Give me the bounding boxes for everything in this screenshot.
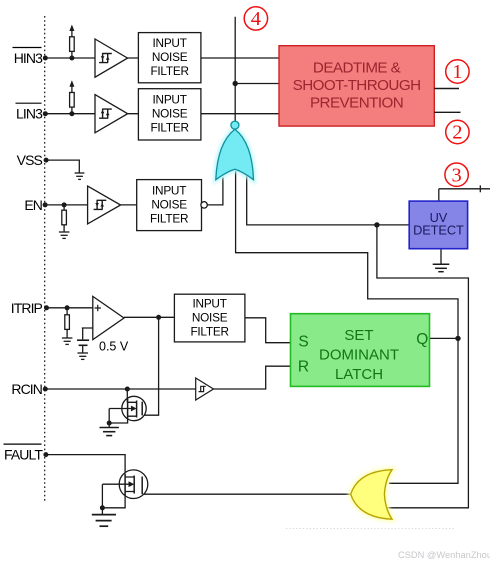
wire comparator minus input (82, 328, 100, 339)
OR gate (yellow) glow (351, 470, 392, 520)
wire HIN3 row (45, 57, 279, 59)
circled number 2 (446, 120, 469, 143)
svg-text:FILTER: FILTER (150, 64, 188, 78)
capacitor 0.5V reference (77, 340, 89, 345)
svg-text:PREVENTION: PREVENTION (310, 95, 403, 112)
circled number 4 (244, 7, 267, 30)
watermark dotted line (286, 528, 454, 530)
schmitt buffer RCIN (196, 378, 214, 400)
svg-text:Q: Q (416, 331, 428, 348)
svg-text:LATCH: LATCH (335, 366, 383, 383)
input noise filter box LIN3 (138, 89, 201, 140)
OR gate (yellow) (351, 470, 392, 520)
wire latch Q down to fault OR gate (389, 338, 458, 483)
UV detect block (409, 201, 467, 249)
wire UV output down to fault OR gate (377, 225, 469, 508)
svg-text:R: R (298, 359, 309, 376)
circled number 3 (445, 163, 468, 186)
schmitt buffer LIN3 (95, 95, 128, 133)
svg-text:INPUT: INPUT (152, 183, 186, 197)
resistor pull-down EN (62, 205, 67, 232)
wire comparator output (124, 316, 174, 318)
set dominant latch block (291, 314, 430, 387)
wire latch Q output (429, 337, 458, 339)
svg-text:NOISE: NOISE (152, 50, 188, 64)
svg-text:INPUT: INPUT (193, 296, 227, 310)
svg-text:CSDN @WenhanZhou: CSDN @WenhanZhou (398, 550, 490, 560)
svg-text:ITRIP: ITRIP (11, 300, 43, 316)
comparator ITRIP (93, 296, 124, 339)
ground EN resistor (59, 232, 70, 238)
wire 0.5V to ground (82, 345, 84, 352)
mosfet RCIN clamp (109, 389, 146, 427)
svg-text:HIN3: HIN3 (14, 50, 43, 66)
wire NOR right input from UV detect (247, 174, 410, 225)
schmitt buffer HIN3 (95, 39, 128, 77)
wire ITRIP row (47, 307, 93, 309)
wire LIN3 row (45, 113, 279, 115)
svg-text:NOISE: NOISE (192, 310, 228, 324)
svg-text:DEADTIME &: DEADTIME & (313, 60, 401, 77)
svg-text:S: S (298, 334, 308, 351)
svg-text:FILTER: FILTER (190, 324, 228, 338)
svg-text:DOMINANT: DOMINANT (319, 347, 399, 364)
ground VSS (75, 173, 85, 179)
wire UV detect ground stem (440, 249, 442, 265)
input noise filter box EN (137, 180, 202, 231)
ground UV detect (433, 264, 450, 272)
svg-text:VSS: VSS (17, 152, 43, 168)
inverter bubble EN filter output (201, 202, 207, 208)
svg-text:NOISE: NOISE (152, 107, 188, 121)
deadtime and shoot-through prevention block (279, 46, 434, 126)
wire NOR middle input from latch Q (236, 171, 458, 338)
ground 0.5V (78, 353, 89, 359)
wire EN row (45, 178, 223, 205)
wire NOR output to deadtime input (235, 17, 279, 122)
wire filter output to latch S (245, 318, 291, 343)
ground RCIN mosfet (100, 428, 119, 436)
resistor pull-down ITRIP (65, 308, 70, 338)
svg-text:FILTER: FILTER (150, 121, 188, 135)
ground FAULT mosfet (92, 515, 116, 527)
pin label HIN3 (13, 48, 44, 67)
svg-text:SET: SET (344, 327, 373, 344)
svg-text:LIN3: LIN3 (16, 106, 43, 122)
wire output stubs 1 and 2 (434, 89, 460, 113)
wire RCIN row (45, 366, 290, 389)
NOR gate (cyan) glow (216, 129, 254, 180)
svg-text:DETECT: DETECT (413, 223, 464, 238)
svg-text:SHOOT-THROUGH: SHOOT-THROUGH (293, 77, 421, 94)
wire comparator output to RCIN mosfet gate (144, 317, 159, 415)
input noise filter box HIN3 (138, 33, 201, 83)
pin boundary dashed line (44, 16, 46, 502)
svg-text:EN: EN (24, 197, 42, 213)
svg-text:1: 1 (452, 61, 462, 83)
svg-text:NOISE: NOISE (151, 197, 187, 211)
svg-text:FAULT: FAULT (4, 447, 43, 463)
svg-text:INPUT: INPUT (153, 93, 187, 107)
svg-text:RCIN: RCIN (11, 381, 42, 397)
wire fault mosfet gate to OR output (144, 493, 351, 495)
resistor pull-up HIN3 (69, 25, 74, 59)
wire VSS to ground (46, 160, 79, 172)
svg-text:3: 3 (451, 164, 461, 186)
svg-text:4: 4 (251, 8, 261, 30)
circled number 1 (446, 60, 469, 83)
wire UV detect VCC top (439, 185, 490, 201)
input noise filter box ITRIP (174, 294, 245, 342)
resistor pull-up LIN3 (69, 80, 74, 114)
svg-text:0.5 V: 0.5 V (99, 340, 129, 354)
wire FAULT row (46, 455, 125, 473)
pin label LIN3 (16, 103, 44, 122)
schmitt buffer EN (88, 186, 121, 224)
ground ITRIP resistor (62, 338, 73, 344)
wire OR gate input stubs (388, 483, 469, 508)
NOR gate (cyan) (216, 121, 254, 180)
svg-text:FILTER: FILTER (150, 211, 188, 225)
svg-text:INPUT: INPUT (153, 36, 187, 50)
svg-text:2: 2 (452, 122, 462, 144)
mosfet FAULT open drain (102, 470, 147, 514)
pin label FAULT (4, 444, 44, 463)
